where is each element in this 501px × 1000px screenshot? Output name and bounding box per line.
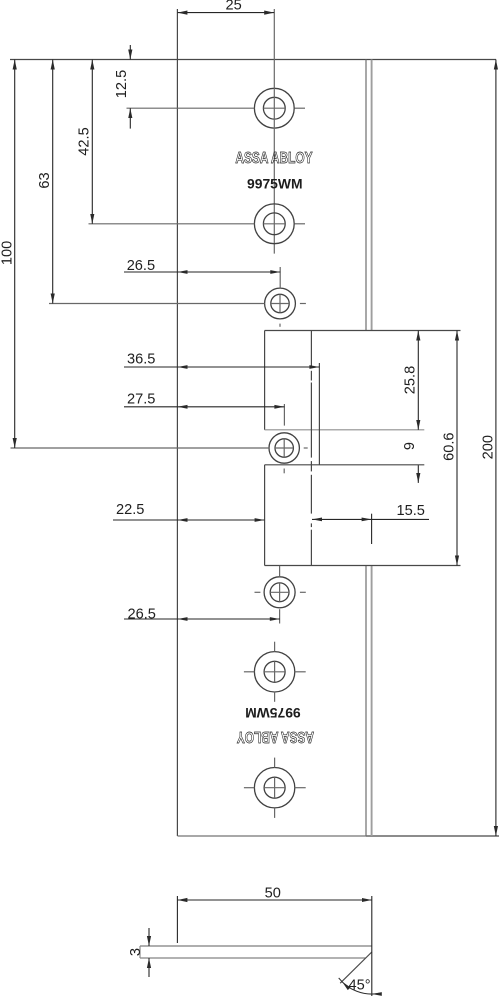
svg-text:25.8: 25.8 xyxy=(403,366,419,394)
svg-text:9975WM: 9975WM xyxy=(247,176,303,191)
svg-text:50: 50 xyxy=(265,886,281,902)
svg-text:63: 63 xyxy=(37,172,53,188)
svg-text:26.5: 26.5 xyxy=(127,258,155,274)
svg-text:200: 200 xyxy=(480,435,496,459)
svg-text:9975WM: 9975WM xyxy=(245,705,301,720)
svg-text:60.6: 60.6 xyxy=(441,432,457,460)
svg-text:26.5: 26.5 xyxy=(128,607,156,623)
svg-text:ASSA ABLOY: ASSA ABLOY xyxy=(235,150,313,167)
svg-text:42.5: 42.5 xyxy=(76,127,92,155)
svg-text:27.5: 27.5 xyxy=(127,392,155,408)
svg-text:25: 25 xyxy=(226,0,242,13)
svg-text:45°: 45° xyxy=(349,977,371,993)
svg-text:3: 3 xyxy=(128,948,144,956)
svg-text:100: 100 xyxy=(0,241,15,265)
svg-text:12.5: 12.5 xyxy=(114,70,130,98)
svg-text:15.5: 15.5 xyxy=(397,503,425,519)
svg-text:9: 9 xyxy=(402,442,418,450)
svg-text:ASSA ABLOY: ASSA ABLOY xyxy=(236,728,314,745)
svg-text:36.5: 36.5 xyxy=(127,352,155,368)
svg-text:22.5: 22.5 xyxy=(116,502,144,518)
